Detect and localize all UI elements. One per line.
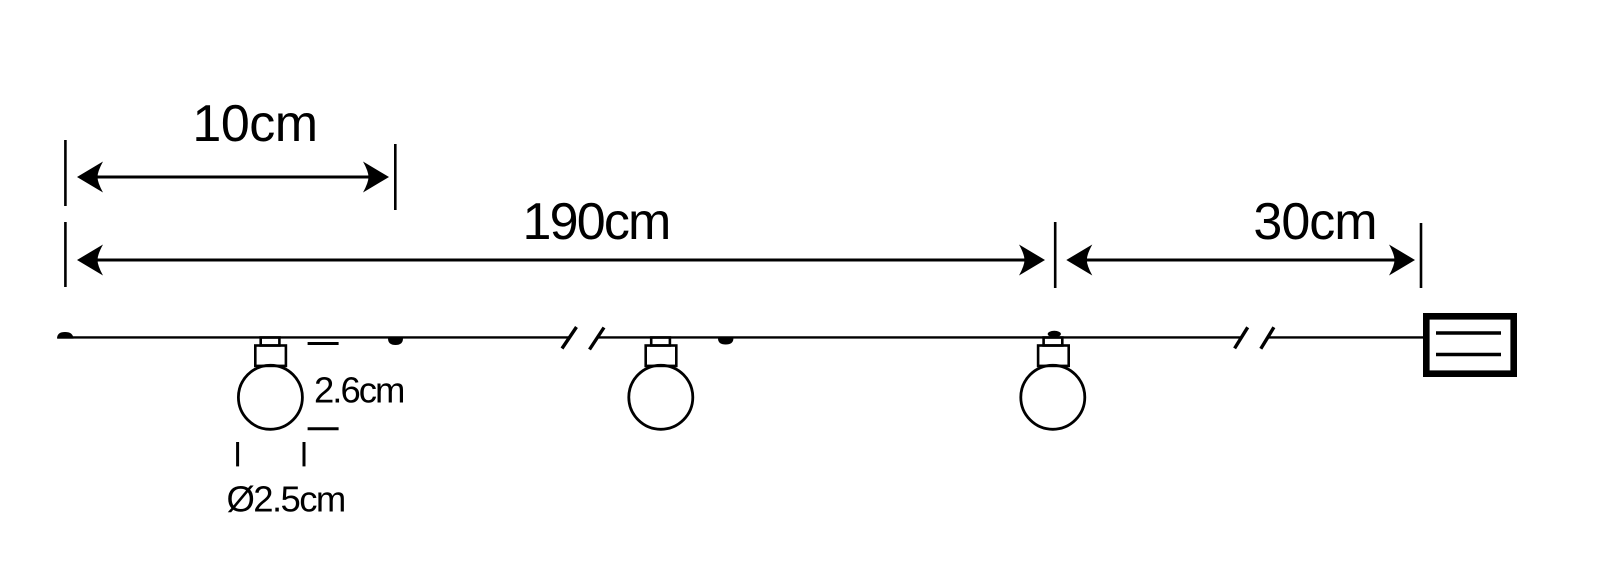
svg-text:10cm: 10cm [192, 95, 317, 153]
bulb 2 (neck, socket, globe) [629, 338, 693, 430]
wire segment 3 [1267, 336, 1425, 338]
tick: Ø2.5cm left reference [236, 442, 239, 466]
tick: 10cm right extension line [394, 144, 397, 210]
arrow: 30cm double-headed [1066, 245, 1415, 276]
tick: 2.6cm top reference [308, 342, 339, 345]
tick: 30cm right extension line [1420, 223, 1423, 288]
wire end cap (left) [57, 332, 74, 339]
LED dot on bulb 3 socket top [1048, 331, 1061, 337]
tick: Ø2.5cm right reference [303, 442, 306, 466]
LED dot on wire (between bulb 2 and 3) [718, 338, 733, 344]
svg-text:2.6cm: 2.6cm [314, 370, 403, 411]
svg-text:190cm: 190cm [522, 193, 669, 251]
wire break mark 2 (double slash) [1235, 327, 1274, 349]
bulb 3 (neck, socket, globe) [1021, 338, 1085, 430]
wire segment 2 [597, 336, 1241, 338]
LED dot on wire (between bulb 1 and 2) [388, 338, 403, 345]
tick: 190cm left extension line [64, 222, 67, 287]
wire segment 1 [58, 336, 569, 338]
svg-text:30cm: 30cm [1253, 193, 1376, 251]
tick: middle extension line (190cm/30cm) [1054, 222, 1057, 288]
arrow: 10cm double-headed [77, 162, 389, 193]
battery box [1426, 316, 1513, 373]
tick: 10cm left extension line [64, 140, 67, 206]
svg-text:Ø2.5cm: Ø2.5cm [227, 479, 345, 520]
arrow: 190cm double-headed [77, 245, 1045, 276]
tick: 2.6cm bottom reference [308, 427, 339, 430]
bulb 1 (neck, socket, globe) [238, 338, 302, 430]
wire break mark 1 (double slash) [562, 327, 604, 350]
